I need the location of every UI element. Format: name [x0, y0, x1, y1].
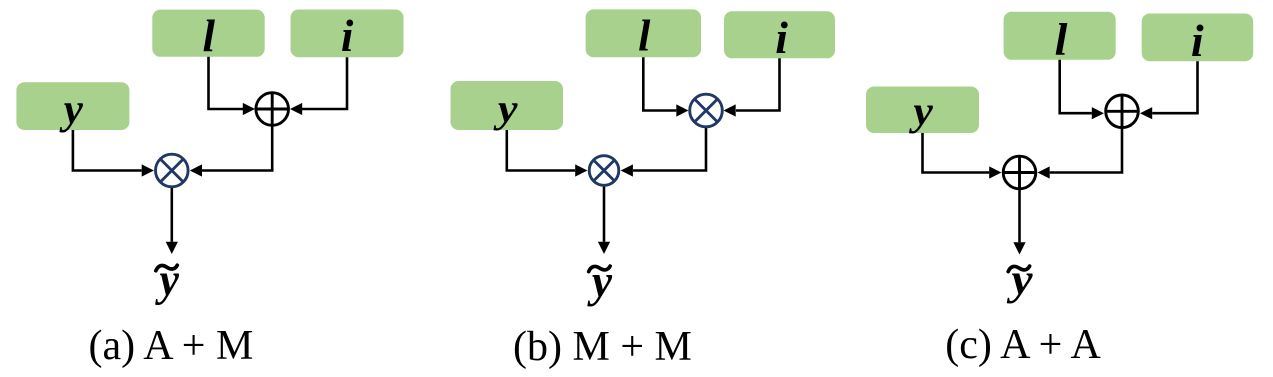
svg-text:i: i [1191, 15, 1204, 66]
svg-text:l: l [203, 11, 216, 61]
svg-text:l: l [1055, 14, 1068, 65]
svg-text:l: l [638, 11, 651, 60]
svg-text:(a) A + M: (a) A + M [89, 323, 254, 369]
svg-text:i: i [775, 12, 788, 63]
svg-text:(b) M + M: (b) M + M [513, 324, 692, 370]
svg-text:(c) A + A: (c) A + A [945, 322, 1101, 368]
svg-text:i: i [341, 11, 354, 61]
